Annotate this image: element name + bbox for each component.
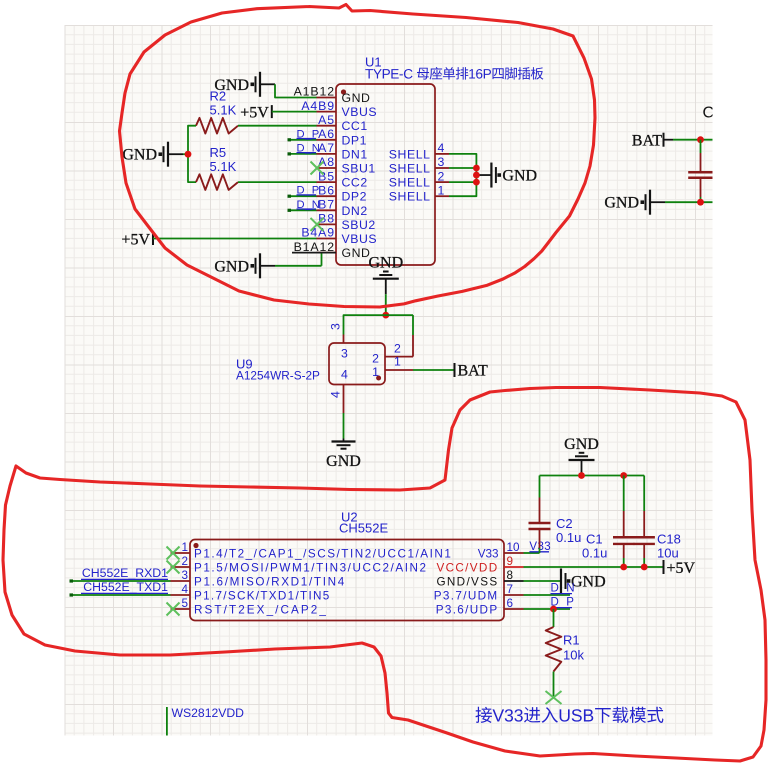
no-connect X pin 5 [167,603,180,616]
U1 reference designator [365,55,382,70]
svg-text:3: 3 [341,347,348,361]
C2 labels [556,516,581,545]
C1 wires [623,476,625,567]
junction GND cap [697,199,704,206]
svg-text:CH552E_TXD1: CH552E_TXD1 [83,580,168,594]
svg-text:SHELL: SHELL [389,147,431,161]
svg-text:B6: B6 [318,183,335,197]
svg-text:+5V: +5V [667,560,696,577]
svg-text:10k: 10k [563,648,584,663]
svg-text:R1: R1 [563,633,580,648]
svg-text:10: 10 [507,541,521,554]
U9 pin 3 stub [343,335,345,344]
ground flag below U9 [326,439,361,471]
svg-text:4: 4 [329,391,343,398]
svg-text:GND: GND [214,258,249,275]
wire GND to pin B1A12 [275,253,336,266]
wire SHELL pin2 [449,181,476,183]
svg-text:GND: GND [571,574,606,591]
svg-text:VBUS: VBUS [342,105,378,119]
svg-text:GND: GND [326,453,361,470]
net label D_P (B6) [297,185,320,197]
svg-text:GND: GND [502,168,537,185]
power flag +5V (pin9) [664,560,696,577]
svg-text:DN1: DN1 [342,147,368,161]
wire SHELL pin4 to GND bus [449,154,476,196]
wire GND to cap [665,201,713,203]
wire junction to R1 [553,609,555,627]
junction C1 bottom [620,564,627,571]
svg-text:CC2: CC2 [342,176,368,190]
svg-text:GND: GND [368,255,403,272]
U1 part name TYPE-C 母座单排16P四脚插板 [365,67,543,80]
U9 pin 1 stub [385,369,413,371]
U9 pin 4 stub [343,385,345,414]
svg-text:CH552E: CH552E [339,521,388,536]
svg-text:SBU1: SBU1 [342,162,376,176]
svg-text:V33: V33 [478,547,499,560]
net label CH552E_RXD1 [81,566,168,580]
junction SHELL pin3 [473,165,480,172]
svg-text:+5V: +5V [121,231,150,248]
wire CH552E_TXD1 to pin4 [70,594,171,596]
svg-text:GND: GND [122,147,157,164]
svg-text:VCC/VDD: VCC/VDD [436,561,498,574]
svg-text:R2: R2 [210,89,227,104]
svg-text:C2: C2 [556,516,573,531]
no-connect X pin 2 [167,561,180,574]
svg-text:3: 3 [329,323,343,330]
wire R2 left to GND junction [188,126,196,182]
net label D_P (pin6) [551,596,575,608]
svg-text:10u: 10u [657,546,679,561]
svg-text:GND: GND [342,91,371,105]
svg-text:CC1: CC1 [342,119,368,133]
wire end tick D_N B7 [288,209,292,212]
wire pin1 to BAT [413,369,454,371]
ground flag bottom-left (pin B1A12) [214,253,275,278]
annotation red circle around U2 [3,388,766,762]
ground flag at SHELL bus [476,163,537,188]
svg-text:1: 1 [394,355,401,369]
svg-text:5: 5 [181,597,188,610]
svg-text:A6: A6 [318,127,335,141]
connector U1 body (TYPE-C 16P symbol) [336,84,435,265]
svg-text:0.1u: 0.1u [556,530,581,545]
junction U9 net [382,312,389,319]
wire pin3 to junction rail [344,315,414,334]
wire GND to pin A1B12 [275,84,317,97]
wire GND flag down to junction [385,294,387,315]
U9 pin 2 stub [385,356,413,358]
svg-text:2: 2 [181,555,188,568]
svg-text:U1: U1 [365,55,382,70]
U9 pin 4 number [329,391,343,398]
net flag BAT (top right) [632,132,673,149]
svg-text:2: 2 [372,352,379,366]
svg-text:B4A9: B4A9 [301,226,335,240]
svg-text:8: 8 [507,569,514,582]
U2 left pin stubs [171,553,191,609]
ground flag inverted (U1 to U9 net) [368,255,403,295]
svg-text:A7: A7 [318,141,335,155]
net label D_N (pin7) [551,582,576,594]
no-connect X below R1 [546,691,562,704]
svg-text:P1.6/MISO/RXD1/TIN4: P1.6/MISO/RXD1/TIN4 [194,575,346,588]
C2 wire to rail [539,476,541,498]
junction GND stub [473,172,480,179]
svg-text:SHELL: SHELL [389,162,431,176]
wire net D_P to pin A6 [288,139,317,141]
svg-text:2: 2 [438,169,445,183]
svg-text:A8: A8 [318,155,335,169]
svg-text:DN2: DN2 [342,204,368,218]
wire pin6 D_P [524,608,571,610]
svg-text:GND: GND [564,436,599,453]
U1 SHELL pin names [389,147,431,203]
svg-text:2: 2 [394,341,401,355]
wire BAT to capacitor [673,139,713,141]
U2 right pin numbers 10 9 8 7 6 [507,541,521,610]
capacitor C2 [529,498,551,549]
partial capacitor designator C [703,105,715,122]
wire R5 to pin B5 [238,181,317,183]
resistor R5 [196,174,238,190]
svg-text:1: 1 [438,183,445,197]
IC U2 body (CH552E) [190,540,504,621]
svg-text:BAT: BAT [632,132,662,149]
U9 pin 3 number [329,323,343,330]
ground flag top (pin A1B12) [214,72,275,97]
svg-text:B1A12: B1A12 [294,240,335,254]
junction C18 bottom [641,564,648,571]
wire pin8 to GND [524,580,562,582]
wire CH552E_RXD1 to pin3 [70,580,171,582]
U9 pin 2 number [394,341,401,355]
wire SHELL pin3 [449,167,476,169]
U1 SHELL pin numbers 4 3 2 1 [438,141,445,197]
ground flag left (R2 R5 junction) [122,142,183,167]
svg-text:P1.5/MOSI/PWM1/TIN3/UCC2/AIN2: P1.5/MOSI/PWM1/TIN3/UCC2/AIN2 [194,561,428,574]
ground flag above rail [564,436,599,476]
svg-text:+5V: +5V [240,104,269,121]
wire pin9 to +5V [524,566,664,568]
annotation red circle around U1 [120,5,596,308]
wire net D_N to pin B7 [288,209,317,211]
svg-text:1: 1 [181,541,188,554]
resistor R2 [196,118,238,134]
net flag BAT (U9) [455,363,488,380]
U9 reference designator [236,357,253,372]
net label D_N (A7) [297,142,321,154]
U2 reference designator [341,510,358,525]
U2 right pin names [434,547,499,616]
ground flag pin8 [561,569,606,594]
wire R2 to pin A5 [238,125,317,127]
junction rail GND [578,472,585,479]
wire net D_N to pin A7 [288,153,317,155]
svg-text:3: 3 [438,155,445,169]
power flag +5V (pin A4B9) [240,104,272,121]
wire GND top rail [540,475,645,477]
wire net D_P to pin B6 [288,195,317,197]
svg-text:VBUS: VBUS [342,232,378,246]
R1 labels [563,633,584,663]
svg-text:5.1K: 5.1K [210,103,237,118]
svg-text:5.1K: 5.1K [210,159,237,174]
U1 left pin names [342,91,378,260]
wire end tick D_N A7 [288,152,292,155]
wire end tick CH552E_RXD1 [70,579,74,582]
ground flag (right) [604,190,665,215]
wire WS2812VDD [166,707,168,736]
svg-text:C1: C1 [586,532,603,547]
U9 pin names inside [341,347,379,382]
svg-text:SHELL: SHELL [389,190,431,204]
svg-text:GND/VSS: GND/VSS [436,575,498,588]
U1 left pin numbers [294,85,335,254]
wire GND to junction [183,153,188,155]
wire R1 to open end [553,672,555,698]
C18 wires [643,476,645,567]
svg-text:A5: A5 [318,113,335,127]
R5 labels [210,145,237,174]
junction rail C1 [620,472,627,479]
svg-text:4: 4 [341,368,348,382]
wire end tick D_P B6 [288,195,292,198]
svg-text:DP2: DP2 [342,190,368,204]
svg-text:A1254WR-S-2P: A1254WR-S-2P [236,369,320,383]
svg-text:9: 9 [507,555,514,568]
svg-text:CH552E_RXD1: CH552E_RXD1 [82,566,168,580]
wire pin4 to GND [343,413,345,439]
svg-text:SHELL: SHELL [389,176,431,190]
svg-text:GND: GND [342,246,371,260]
junction BAT cap [697,136,704,143]
capacitor C18 [634,511,655,558]
wire end tick CH552E_TXD1 [70,593,74,596]
wire cap top lead [700,140,702,153]
svg-text:B8: B8 [318,212,335,226]
wire cap bottom lead [700,197,702,202]
no-connect X pin B8 [311,218,324,231]
svg-text:6: 6 [507,597,514,610]
svg-text:WS2812VDD: WS2812VDD [172,706,245,720]
svg-text:3: 3 [181,569,188,582]
U2 part name CH552E [339,521,388,536]
junction pin6 R1 [550,606,557,613]
net label D_N (B7) [297,199,321,211]
wire pin7 D_N [524,594,571,596]
resistor R1 [546,627,562,672]
svg-text:DP1: DP1 [342,133,368,147]
U2 left pin names [194,547,452,616]
svg-text:0.1u: 0.1u [582,546,607,561]
C2 wire to V33 [539,548,541,553]
U9 part name A1254WR-S-2P [236,369,320,383]
svg-text:BAT: BAT [458,363,488,380]
U2 right pin stubs [504,553,524,609]
wire +5V to pin A4B9 [272,111,317,113]
svg-text:C: C [703,105,715,122]
capacitor (partial, right edge) [688,153,713,197]
net label CH552E_TXD1 [81,580,168,594]
U2 left pin numbers 1-5 [181,541,188,610]
no-connect X pin 1 [167,547,180,560]
wire +5V to pin B4A9 [153,238,317,240]
svg-text:7: 7 [507,583,514,596]
svg-text:P1.7/SCK/TXD1/TIN5: P1.7/SCK/TXD1/TIN5 [194,589,331,602]
svg-text:SBU2: SBU2 [342,218,376,232]
U9 pin 1 number [394,355,401,369]
svg-text:P1.4/T2_/CAP1_/SCS/TIN2/UCC1/A: P1.4/T2_/CAP1_/SCS/TIN2/UCC1/AIN1 [194,547,452,560]
svg-text:P3.7/UDM: P3.7/UDM [434,589,499,602]
wire pin10 to C2 [524,552,540,554]
svg-text:R5: R5 [210,145,227,160]
C18 labels [657,532,681,561]
power flag +5V (pin B4A9) [121,231,153,248]
R2 labels [210,89,237,118]
svg-text:C18: C18 [657,532,681,547]
svg-text:4: 4 [181,583,188,596]
annotation text 接V33进入USB下载模式 [475,707,663,723]
svg-text:B7: B7 [318,198,335,212]
U1 SHELL pin stubs [435,154,449,196]
junction SHELL pin2 [473,179,480,186]
capacitor C1 [613,511,634,558]
svg-text:RST/T2EX_/CAP2_: RST/T2EX_/CAP2_ [194,603,328,616]
net label D_P (A6) [297,128,320,140]
svg-text:GND: GND [604,195,639,212]
wire pin2 up to rail [412,315,414,357]
net label V33 [529,541,551,553]
connector U9 body [329,343,385,385]
U1 left pin stubs A1B12..B1A12 [317,98,337,253]
svg-text:P3.6/UDP: P3.6/UDP [436,603,499,616]
C1 labels [582,532,607,561]
svg-text:1: 1 [372,365,379,379]
no-connect X pin A8 [311,162,324,175]
net label WS2812VDD [172,706,245,720]
wire end tick D_P A6 [288,138,292,141]
junction R2 R5 GND [185,151,192,158]
svg-text:D_N: D_N [551,582,576,594]
svg-text:4: 4 [438,141,445,155]
